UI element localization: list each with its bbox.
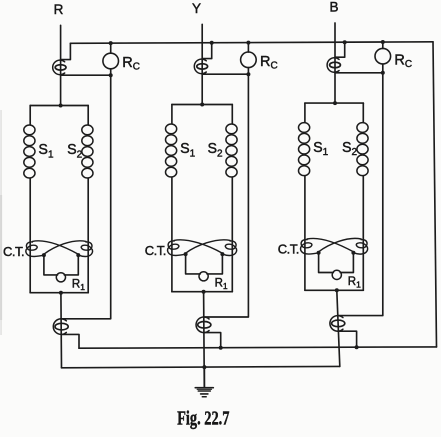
svg-text:C.T.: C.T. — [3, 244, 24, 259]
svg-text:R: R — [54, 2, 64, 17]
svg-text:C.T.: C.T. — [278, 242, 299, 257]
svg-text:C.T.: C.T. — [145, 243, 166, 258]
svg-text:Y: Y — [192, 1, 201, 16]
svg-text:Fig. 22.7: Fig. 22.7 — [177, 406, 230, 429]
svg-text:B: B — [329, 0, 338, 14]
